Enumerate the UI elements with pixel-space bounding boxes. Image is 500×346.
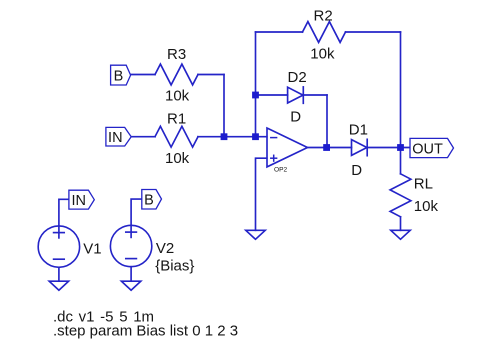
value D1 D	[351, 162, 362, 179]
op-amp U1	[267, 128, 308, 167]
wire R1 to op-amp inverting input	[198, 136, 267, 138]
port OUT	[410, 138, 454, 157]
wire R2 right lead	[346, 31, 401, 33]
voltage source V2	[110, 225, 151, 266]
label D1	[349, 121, 368, 138]
svg-text:R3: R3	[167, 46, 186, 63]
port B (R3 input)	[111, 65, 131, 85]
wire V1 bottom to ground	[58, 267, 60, 281]
wire feedback right column	[400, 32, 402, 148]
svg-text:B: B	[114, 68, 124, 84]
svg-text:IN: IN	[71, 193, 86, 209]
spice directive .dc	[53, 308, 154, 325]
wire corner down to R1 node	[223, 75, 225, 137]
svg-text:R2: R2	[314, 7, 333, 24]
spice directive .step	[53, 323, 238, 340]
label R3	[167, 46, 186, 63]
resistor R1	[155, 126, 198, 147]
port B (V2)	[142, 190, 162, 210]
svg-text:10k: 10k	[165, 150, 190, 167]
wire port IN to R1	[131, 136, 155, 138]
value R1 10k	[165, 150, 190, 167]
node junction R3/R1	[221, 133, 228, 140]
wire V1 top to IN port	[59, 199, 69, 226]
value D2 D	[290, 108, 301, 125]
resistor R2	[303, 22, 346, 43]
ground at op-amp	[246, 230, 265, 239]
value V2 {Bias}	[155, 258, 194, 275]
node junction op-amp inverting input	[252, 133, 259, 140]
wire op-amp noninverting input to ground	[256, 158, 267, 230]
svg-text:D1: D1	[349, 121, 368, 138]
ground at V1	[49, 281, 68, 290]
svg-text:R1: R1	[167, 110, 186, 127]
node junction D2 takeoff	[252, 92, 259, 99]
wire V2 bottom to ground	[130, 267, 132, 282]
label D2	[288, 69, 307, 86]
diode D1	[352, 139, 368, 155]
node junction op-amp output	[323, 144, 330, 151]
svg-text:IN: IN	[108, 130, 123, 146]
wire D1 cathode to OUT	[367, 147, 410, 149]
value RL 10k	[414, 198, 439, 215]
svg-text:V2: V2	[156, 240, 174, 257]
wire port B to R3	[131, 74, 155, 76]
svg-text:B: B	[144, 192, 154, 208]
label R2	[314, 7, 333, 24]
wire op-amp output to D1	[307, 147, 351, 149]
svg-text:10k: 10k	[165, 88, 190, 105]
svg-text:RL: RL	[414, 176, 433, 193]
diode D2	[288, 87, 304, 103]
wire corner down to op-amp output node	[326, 95, 328, 148]
wire D2 cathode to corner	[303, 94, 327, 96]
wire RL to ground	[400, 217, 402, 231]
wire OUT node to RL	[400, 148, 402, 174]
svg-text:{Bias}: {Bias}	[155, 258, 194, 275]
port IN (R1 input)	[106, 127, 131, 146]
svg-text:OUT: OUT	[412, 141, 443, 157]
resistor R3	[155, 64, 198, 85]
value R2 10k	[310, 46, 335, 63]
svg-text:D: D	[351, 162, 362, 179]
node junction OUT	[397, 144, 404, 151]
svg-text:10k: 10k	[310, 46, 335, 63]
svg-text:D2: D2	[288, 69, 307, 86]
svg-text:10k: 10k	[414, 198, 439, 215]
label RL	[414, 176, 433, 193]
ground at RL	[391, 230, 410, 239]
svg-text:D: D	[290, 108, 301, 125]
label V2	[156, 240, 174, 257]
wire V2 top to B port	[131, 199, 142, 225]
wire feedback left column	[255, 32, 257, 137]
label V1	[83, 241, 101, 258]
wire R2 left lead	[256, 31, 303, 33]
value R3 10k	[165, 88, 190, 105]
wire R3 to corner	[198, 74, 224, 76]
resistor RL	[390, 174, 411, 217]
ground at V2	[121, 281, 140, 290]
port IN (V1)	[69, 190, 94, 209]
voltage source V1	[38, 226, 79, 267]
svg-text:.step param Bias list 0 1 2 3: .step param Bias list 0 1 2 3	[53, 323, 238, 340]
label R1	[167, 110, 186, 127]
svg-text:V1: V1	[83, 241, 101, 258]
wire node to D2 anode	[256, 94, 288, 96]
value op-amp OP2	[274, 167, 288, 174]
svg-text:OP2: OP2	[274, 167, 288, 174]
